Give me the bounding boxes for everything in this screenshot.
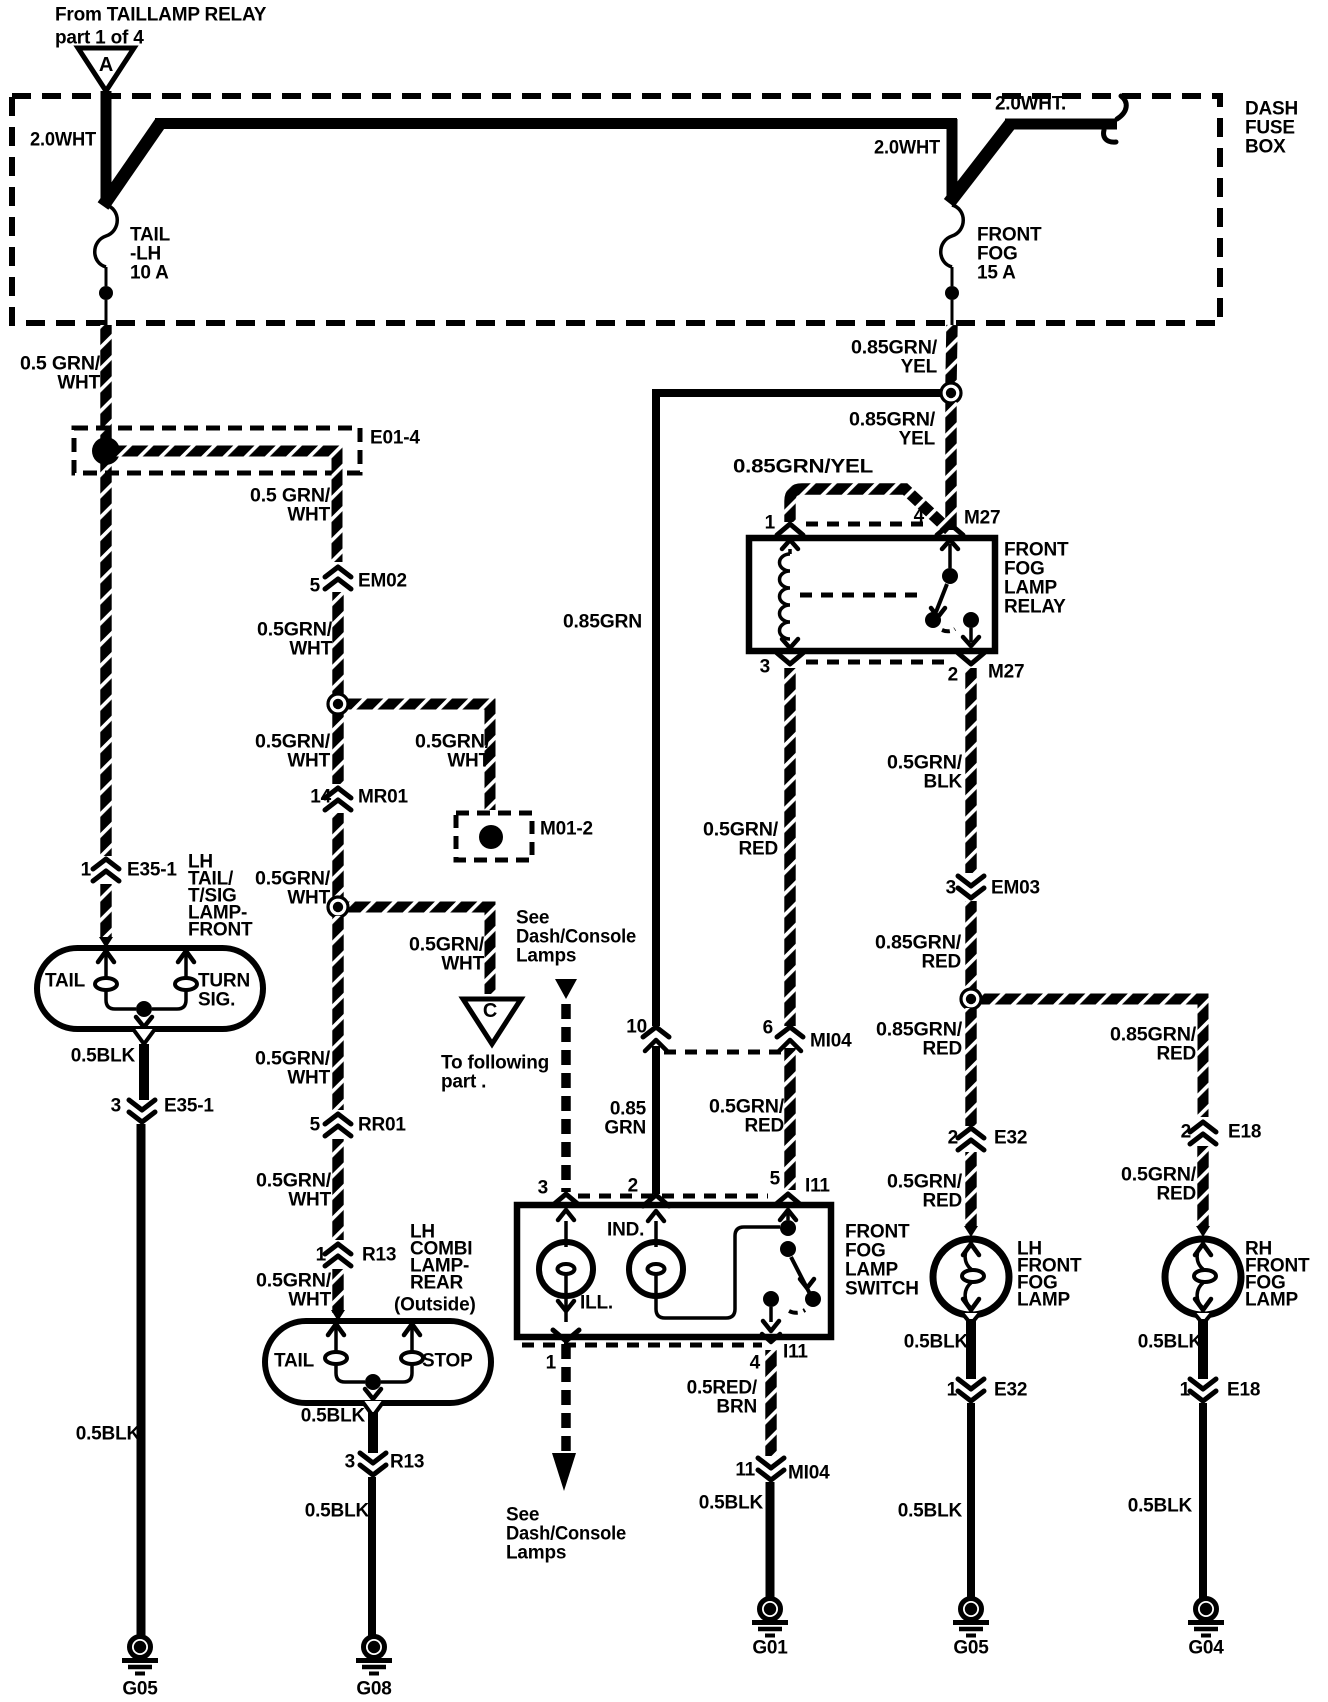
svg-text:1: 1 xyxy=(947,1379,958,1400)
svg-text:1: 1 xyxy=(1180,1379,1191,1400)
connector E18 pin 1 xyxy=(1190,1379,1216,1389)
svg-text:FOG: FOG xyxy=(977,243,1018,264)
arrow from dash/console lamps xyxy=(555,979,577,999)
connector E35-1 pin 3 xyxy=(129,1100,155,1110)
svg-text:RED: RED xyxy=(922,1190,962,1211)
svg-text:0.85GRN/: 0.85GRN/ xyxy=(849,409,936,430)
wire 0.5BLK to ground xyxy=(137,1124,146,1636)
svg-text:C: C xyxy=(483,1000,497,1022)
svg-text:RED: RED xyxy=(738,838,778,859)
svg-text:FRONT: FRONT xyxy=(845,1221,910,1242)
svg-text:FRONT: FRONT xyxy=(188,919,253,940)
svg-text:1: 1 xyxy=(81,859,92,880)
svg-text:FRONT: FRONT xyxy=(977,224,1042,245)
wire 0.5GRN/RED from relay pin 3 xyxy=(784,668,795,1026)
svg-text:part 1 of 4: part 1 of 4 xyxy=(55,27,144,48)
ground G05 left xyxy=(122,1637,158,1674)
svg-text:0.5RED/: 0.5RED/ xyxy=(687,1377,758,1398)
junction ring 2 xyxy=(348,907,490,994)
svg-text:E32: E32 xyxy=(994,1379,1027,1400)
relay pin 2 xyxy=(958,653,984,664)
svg-text:2.0WHT: 2.0WHT xyxy=(30,129,97,150)
svg-text:0.5GRN/: 0.5GRN/ xyxy=(703,819,779,840)
svg-text:2.0WHT.: 2.0WHT. xyxy=(995,93,1066,114)
dashed box DASH FUSE BOX xyxy=(12,96,1220,323)
wire continuation hook xyxy=(1117,96,1126,119)
svg-text:MR01: MR01 xyxy=(358,786,409,807)
junction ring xyxy=(348,704,490,810)
svg-text:0.5GRN/: 0.5GRN/ xyxy=(255,1048,331,1069)
svg-text:See: See xyxy=(506,1504,539,1525)
lamp internal TAIL bulb xyxy=(98,951,114,962)
svg-text:0.5GRN/: 0.5GRN/ xyxy=(255,868,331,889)
svg-text:0.85GRN/: 0.85GRN/ xyxy=(851,337,938,358)
svg-text:From TAILLAMP RELAY: From TAILLAMP RELAY xyxy=(55,4,267,25)
svg-text:LAMP: LAMP xyxy=(1004,577,1058,598)
svg-text:See: See xyxy=(516,907,549,928)
svg-text:RR01: RR01 xyxy=(358,1114,406,1135)
switch pin 2 xyxy=(643,1195,669,1206)
wire 0.5RED/BRN xyxy=(765,1350,776,1456)
ground G01 xyxy=(752,1599,788,1636)
connector E18 pin 2 xyxy=(1190,1122,1216,1132)
wire 2.0WHT from A down xyxy=(101,91,112,203)
wire 0.5BLK to ground G05 xyxy=(967,1403,975,1598)
svg-text:-LH: -LH xyxy=(130,243,161,264)
svg-text:YEL: YEL xyxy=(901,356,938,377)
svg-text:I11: I11 xyxy=(805,1175,830,1196)
svg-text:0.5GRN/: 0.5GRN/ xyxy=(256,1270,332,1291)
wire 0.5BLK to ground G01 xyxy=(766,1482,775,1598)
fuse TAIL-LH 10A xyxy=(95,205,118,267)
svg-text:0.85: 0.85 xyxy=(610,1098,647,1119)
svg-text:BOX: BOX xyxy=(1245,136,1286,157)
svg-text:TAIL: TAIL xyxy=(130,224,171,245)
relay dashed pin line bottom xyxy=(806,660,952,665)
svg-text:5: 5 xyxy=(310,575,321,596)
svg-text:M01-2: M01-2 xyxy=(540,818,593,839)
svg-text:WHT: WHT xyxy=(287,887,330,908)
svg-text:G05: G05 xyxy=(953,1637,989,1658)
svg-text:SWITCH: SWITCH xyxy=(845,1278,919,1299)
svg-text:WHT: WHT xyxy=(287,504,330,525)
wire 2.0WHT bus to continuation hook xyxy=(1005,119,1117,130)
svg-text:0.5BLK: 0.5BLK xyxy=(301,1405,366,1426)
svg-text:BRN: BRN xyxy=(716,1396,757,1417)
lamp exit notch xyxy=(133,1029,155,1044)
svg-text:BLK: BLK xyxy=(924,771,963,792)
svg-text:R13: R13 xyxy=(362,1244,396,1265)
wire 0.5GRN/WHT xyxy=(332,1139,343,1240)
svg-text:LAMP: LAMP xyxy=(1017,1289,1071,1310)
svg-text:0.5BLK: 0.5BLK xyxy=(76,1423,141,1444)
svg-text:0.5GRN/: 0.5GRN/ xyxy=(709,1096,785,1117)
wire 0.5GRN/WHT branch in E01-4 xyxy=(112,451,337,562)
svg-text:14: 14 xyxy=(310,786,331,807)
svg-text:0.5GRN/: 0.5GRN/ xyxy=(887,752,963,773)
connector MI04 pin 11 xyxy=(758,1458,784,1468)
relay switch contact xyxy=(948,544,952,568)
svg-text:0.5GRN/: 0.5GRN/ xyxy=(409,934,485,955)
connector box E01-4 xyxy=(74,428,360,473)
wire 0.85GRN/RED xyxy=(965,901,976,989)
wire 0.85GRN vertical xyxy=(652,389,660,1026)
svg-text:GRN: GRN xyxy=(604,1117,646,1138)
svg-text:10: 10 xyxy=(626,1016,647,1037)
svg-text:WHT: WHT xyxy=(441,953,484,974)
svg-text:0.5 GRN/: 0.5 GRN/ xyxy=(250,485,331,506)
lamp internal TURN SIG bulb xyxy=(178,951,194,962)
svg-text:3: 3 xyxy=(946,877,956,898)
svg-text:0.85GRN/: 0.85GRN/ xyxy=(876,1019,963,1040)
connector E35-1 pin 1 xyxy=(93,859,119,869)
svg-text:0.5GRN/: 0.5GRN/ xyxy=(255,731,331,752)
wire 0.5GRN/WHT below ring2 xyxy=(332,916,343,1110)
connector box M01-2 xyxy=(456,813,532,860)
connector E32 pin 2 xyxy=(958,1128,984,1138)
wire 0.5GRN/WHT left main xyxy=(100,325,111,856)
svg-text:FOG: FOG xyxy=(1004,558,1045,579)
wire 0.5GRN/WHT xyxy=(332,592,343,695)
off-page connector triangle A xyxy=(78,48,134,91)
wire 0.5GRN/RED to LH fog lamp xyxy=(965,1152,976,1226)
switch pin 3 xyxy=(553,1194,579,1205)
wire 0.85GRN to switch pin 2 xyxy=(652,1046,660,1194)
fuse FRONT FOG 15A xyxy=(941,205,964,267)
svg-text:M27: M27 xyxy=(988,661,1024,682)
svg-text:5: 5 xyxy=(310,1114,321,1135)
svg-text:WHT: WHT xyxy=(287,750,330,771)
relay pin 4 xyxy=(937,524,963,535)
switch contacts xyxy=(786,1210,790,1220)
svg-text:ILL.: ILL. xyxy=(580,1292,613,1313)
wire 2.0WHT drop to FRONT FOG fuse xyxy=(947,119,958,199)
wire 2.0WHT bus diagonal left xyxy=(103,122,161,206)
svg-text:0.5BLK: 0.5BLK xyxy=(71,1045,136,1066)
svg-text:WHT: WHT xyxy=(57,372,100,393)
switch box FRONT FOG LAMP SWITCH xyxy=(517,1205,831,1337)
svg-text:0.85GRN/: 0.85GRN/ xyxy=(875,932,962,953)
svg-text:RED: RED xyxy=(921,951,961,972)
svg-text:MI04: MI04 xyxy=(810,1030,852,1051)
svg-text:EM02: EM02 xyxy=(358,570,407,591)
svg-text:WHT: WHT xyxy=(288,1189,331,1210)
svg-text:3: 3 xyxy=(111,1095,121,1116)
svg-text:0.5GRN/: 0.5GRN/ xyxy=(257,619,333,640)
svg-text:3: 3 xyxy=(538,1177,548,1198)
svg-text:YEL: YEL xyxy=(899,428,936,449)
connector MR01 pin 14 xyxy=(325,788,351,798)
lamp TAIL/STOP body xyxy=(265,1321,491,1403)
svg-text:SIG.: SIG. xyxy=(198,989,235,1010)
svg-text:WHT: WHT xyxy=(288,1289,331,1310)
svg-text:Lamps: Lamps xyxy=(516,945,576,966)
svg-text:1: 1 xyxy=(765,512,776,533)
svg-text:6: 6 xyxy=(763,1017,773,1038)
junction ring fuse wire xyxy=(941,383,961,403)
svg-text:RED: RED xyxy=(1156,1043,1196,1064)
wire 0.5GRN/RED to switch pin 5 xyxy=(784,1048,795,1190)
wire 0.85GRN horizontal xyxy=(656,389,941,397)
svg-text:DASH: DASH xyxy=(1245,98,1298,119)
svg-text:0.85GRN: 0.85GRN xyxy=(563,611,642,632)
junction ring to RH branch xyxy=(981,999,1203,1117)
svg-text:0.5BLK: 0.5BLK xyxy=(1138,1331,1203,1352)
svg-text:EM03: EM03 xyxy=(991,877,1040,898)
switch ILL bulb xyxy=(539,1242,593,1296)
svg-text:10 A: 10 A xyxy=(130,262,169,283)
relay dashed pin line top xyxy=(806,522,932,527)
svg-text:I11: I11 xyxy=(783,1341,808,1362)
connector I11 dashed line top xyxy=(578,1194,768,1199)
connector MI04 dashed line xyxy=(664,1050,786,1055)
svg-text:E01-4: E01-4 xyxy=(370,427,420,448)
wire 0.5GRN/WHT xyxy=(332,813,343,898)
wire 0.5BLK from rear lamp xyxy=(368,1412,378,1453)
svg-text:G08: G08 xyxy=(356,1678,391,1699)
connector R13 pin 3 xyxy=(360,1453,386,1463)
relay box FRONT FOG LAMP RELAY xyxy=(749,538,995,651)
svg-text:11: 11 xyxy=(735,1459,755,1480)
relay dashed link xyxy=(800,593,922,598)
switch pin 5 xyxy=(775,1194,801,1205)
svg-text:LAMP: LAMP xyxy=(1245,1289,1299,1310)
relay coil xyxy=(788,549,792,554)
lamp LH body xyxy=(933,1239,1009,1315)
wire 0.5GRN/WHT to rear lamp xyxy=(332,1269,343,1313)
lamp exit notch xyxy=(362,1401,384,1416)
svg-text:STOP: STOP xyxy=(422,1350,473,1371)
svg-text:FUSE: FUSE xyxy=(1245,117,1295,138)
svg-text:15 A: 15 A xyxy=(977,262,1016,283)
svg-text:TAIL: TAIL xyxy=(274,1350,315,1371)
connector R13 pin 1 xyxy=(325,1244,351,1254)
svg-text:E18: E18 xyxy=(1227,1379,1260,1400)
svg-text:FRONT: FRONT xyxy=(1004,539,1069,560)
svg-text:0.5BLK: 0.5BLK xyxy=(305,1500,370,1521)
svg-text:0.85GRN/: 0.85GRN/ xyxy=(1110,1024,1197,1045)
lamp junction dot xyxy=(365,1374,381,1390)
svg-text:2: 2 xyxy=(948,1127,958,1148)
wire 0.85GRN/RED to E32 xyxy=(965,1008,976,1126)
svg-text:IND.: IND. xyxy=(607,1219,644,1240)
lamp RH body xyxy=(1165,1239,1241,1315)
svg-text:FOG: FOG xyxy=(845,1240,886,1261)
connector I11 dashed line bottom xyxy=(522,1343,762,1348)
svg-text:RELAY: RELAY xyxy=(1004,596,1066,617)
svg-text:0.5GRN/: 0.5GRN/ xyxy=(887,1171,963,1192)
connector RR01 pin 5 xyxy=(325,1114,351,1124)
svg-text:3: 3 xyxy=(345,1451,355,1472)
svg-text:E35-1: E35-1 xyxy=(164,1095,214,1116)
svg-text:0.5 GRN/: 0.5 GRN/ xyxy=(20,353,101,374)
svg-text:Lamps: Lamps xyxy=(506,1542,566,1563)
switch IND bulb xyxy=(629,1242,683,1296)
svg-text:2: 2 xyxy=(628,1175,638,1196)
svg-text:1: 1 xyxy=(546,1352,557,1373)
svg-text:0.5GRN/: 0.5GRN/ xyxy=(1121,1164,1197,1185)
svg-text:E32: E32 xyxy=(994,1127,1027,1148)
svg-text:0.5GRN/: 0.5GRN/ xyxy=(256,1170,332,1191)
connector EM03 pin 3 xyxy=(958,876,984,886)
svg-text:2.0WHT: 2.0WHT xyxy=(874,137,941,158)
wire 0.5BLK from front lamp xyxy=(139,1044,149,1100)
svg-text:R13: R13 xyxy=(390,1451,424,1472)
wire 0.85GRN/YEL from fuse xyxy=(951,325,952,384)
svg-text:Dash/Console: Dash/Console xyxy=(516,926,636,947)
lamp junction dot xyxy=(136,1001,152,1017)
svg-text:1: 1 xyxy=(316,1244,327,1265)
svg-text:A: A xyxy=(99,54,113,76)
svg-text:E18: E18 xyxy=(1228,1121,1261,1142)
wire 0.5GRN/BLK from relay pin 2 xyxy=(965,668,976,873)
wire 0.5GRN/RED to RH fog lamp xyxy=(1197,1146,1208,1226)
svg-text:WHT: WHT xyxy=(287,1067,330,1088)
svg-text:2: 2 xyxy=(1181,1121,1191,1142)
wire 0.85GRN/YEL to relay pin 4 xyxy=(945,402,956,530)
lamp internal STOP bulb xyxy=(404,1324,420,1335)
svg-text:0.5BLK: 0.5BLK xyxy=(699,1492,764,1513)
svg-text:MI04: MI04 xyxy=(788,1462,830,1483)
relay pin 1 xyxy=(777,524,803,535)
dashed wire to switch ILL pin 3 xyxy=(561,1004,571,1192)
svg-text:2: 2 xyxy=(948,664,958,685)
svg-text:E35-1: E35-1 xyxy=(127,859,177,880)
wire 0.5GRN/WHT below ring xyxy=(332,713,343,784)
svg-text:RED: RED xyxy=(1156,1183,1196,1204)
svg-text:3: 3 xyxy=(760,656,770,677)
svg-text:0.5GRN/: 0.5GRN/ xyxy=(415,731,491,752)
svg-text:0.85GRN/YEL: 0.85GRN/YEL xyxy=(733,456,874,477)
svg-text:REAR: REAR xyxy=(410,1272,464,1293)
svg-text:TAIL: TAIL xyxy=(45,970,86,991)
wire 0.5BLK from RH fog lamp xyxy=(1198,1319,1208,1379)
connector EM02 pin 5 xyxy=(325,567,351,577)
wire 0.5BLK from LH fog lamp xyxy=(966,1319,976,1379)
svg-text:G01: G01 xyxy=(752,1637,788,1658)
switch pin 1 dashed wire down xyxy=(561,1344,571,1452)
connector MI04 pin 10 xyxy=(643,1027,669,1037)
svg-text:0.5BLK: 0.5BLK xyxy=(1128,1495,1193,1516)
off-page connector triangle C xyxy=(463,999,521,1044)
connector MI04 pin 6 xyxy=(777,1027,803,1037)
wire 2.0WHT bus diagonal right xyxy=(949,123,1011,203)
svg-text:LAMP: LAMP xyxy=(845,1259,899,1280)
relay pin 3 xyxy=(777,653,803,664)
svg-text:G04: G04 xyxy=(1188,1637,1224,1658)
wire 0.85GRN/YEL relay loop xyxy=(790,489,949,530)
svg-text:WHT: WHT xyxy=(289,638,332,659)
svg-text:(Outside): (Outside) xyxy=(394,1294,476,1315)
svg-text:RED: RED xyxy=(744,1115,784,1136)
wire 0.5GRN/WHT to front lamp xyxy=(100,884,111,938)
junction dot in E01-4 xyxy=(92,437,120,465)
svg-text:5: 5 xyxy=(770,1168,781,1189)
svg-text:0.5BLK: 0.5BLK xyxy=(904,1331,969,1352)
svg-text:WHT: WHT xyxy=(447,750,490,771)
ground G08 xyxy=(356,1637,392,1674)
lamp internal TAIL bulb xyxy=(328,1324,344,1335)
svg-text:0.5BLK: 0.5BLK xyxy=(898,1500,963,1521)
svg-text:RED: RED xyxy=(922,1038,962,1059)
svg-text:part .: part . xyxy=(441,1071,486,1092)
arrow to dash/console lamps xyxy=(552,1453,576,1491)
ground G04 xyxy=(1188,1599,1224,1636)
svg-text:To following: To following xyxy=(441,1052,549,1073)
svg-text:4: 4 xyxy=(750,1352,761,1373)
ground G05 right xyxy=(953,1599,989,1636)
lamp LH TAIL/T-SIG FRONT body xyxy=(37,948,263,1029)
svg-text:Dash/Console: Dash/Console xyxy=(506,1523,626,1544)
switch pin 4 xyxy=(762,1334,780,1342)
connector E32 pin 1 xyxy=(958,1379,984,1389)
wire 2.0WHT bus horizontal xyxy=(155,118,957,129)
wire 0.5BLK to ground G04 xyxy=(1199,1403,1207,1598)
wire 0.5BLK to ground G08 xyxy=(368,1477,376,1636)
svg-text:TURN: TURN xyxy=(198,970,250,991)
svg-text:M27: M27 xyxy=(964,507,1000,528)
svg-text:G05: G05 xyxy=(122,1678,158,1699)
